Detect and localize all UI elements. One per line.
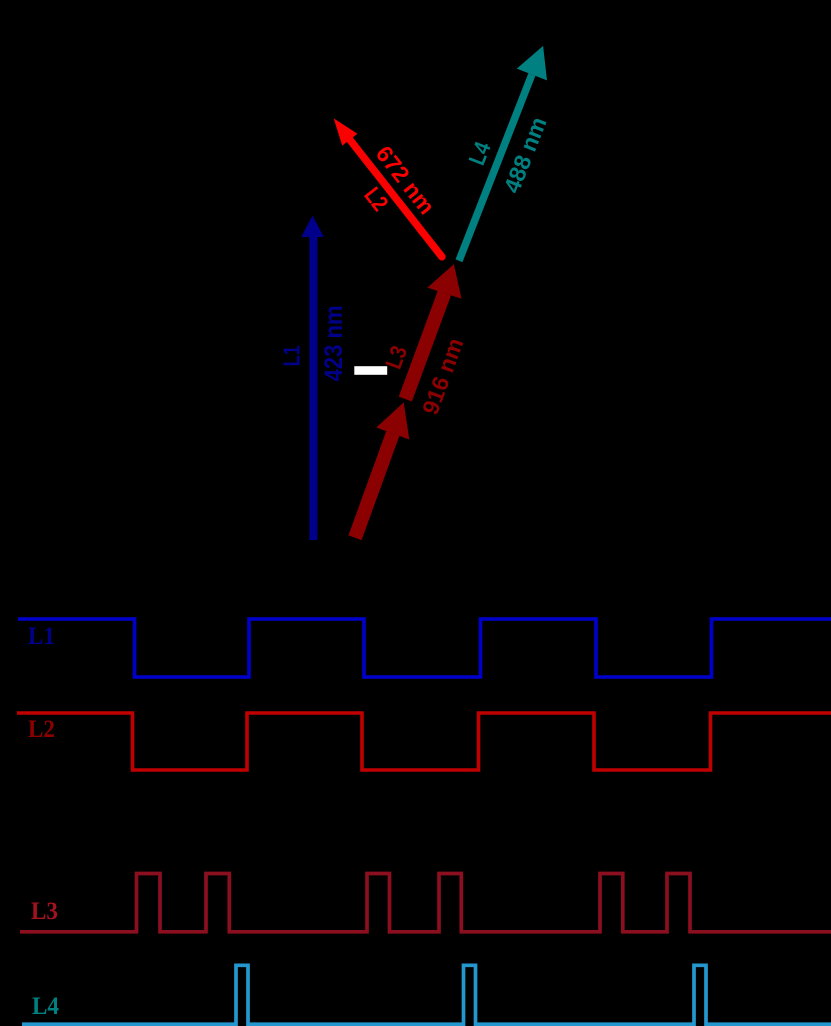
svg-text:L1: L1 <box>279 345 305 366</box>
label 916 nm (rotated, dark red) <box>417 335 469 418</box>
white level marker dash <box>354 366 387 375</box>
arrow L4 (teal beam, up-right) <box>459 46 547 261</box>
svg-text:L3: L3 <box>31 898 58 925</box>
trace L2 (dark red square wave) <box>17 713 831 770</box>
label L2 (rotated, red) <box>359 182 393 216</box>
svg-text:L2: L2 <box>28 716 55 743</box>
trace L4 (light blue narrow pulses) <box>22 965 831 1024</box>
label 423 nm (rotated, blue) <box>320 305 348 381</box>
trace L3 (crimson pulse pairs) <box>20 874 831 932</box>
svg-text:L4: L4 <box>32 993 59 1020</box>
label L4 (rotated, teal) <box>463 138 495 169</box>
label L1 (rotated, blue) <box>279 345 305 366</box>
arrow L3 lower segment (dark red beam) <box>355 402 409 537</box>
trace L1 (blue square wave) <box>18 619 831 677</box>
label L3 (rotated, dark red) <box>380 342 412 372</box>
arrow L1 (blue beam, vertical) <box>301 216 324 541</box>
svg-text:423 nm: 423 nm <box>320 305 348 381</box>
arrow L2 (red beam, up-left) <box>334 118 442 256</box>
arrow L3 upper segment (dark red beam) <box>405 264 461 399</box>
svg-text:L1: L1 <box>28 623 55 650</box>
label 672 nm (rotated, red) <box>371 141 440 219</box>
label 488 nm (rotated, teal) <box>498 113 551 196</box>
